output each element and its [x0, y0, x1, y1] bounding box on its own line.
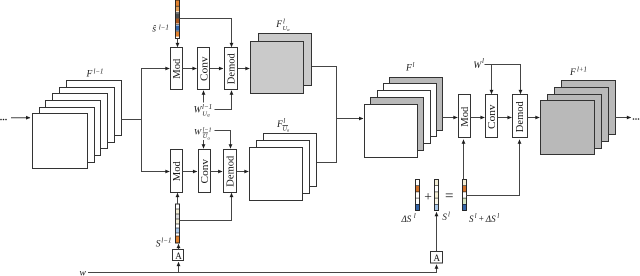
- svg-text:F: F: [405, 63, 412, 73]
- wire: split vertical: [141, 68, 143, 172]
- wire Mod to Conv (top): [183, 68, 197, 70]
- svg-text:a: a: [208, 135, 211, 140]
- svg-text:l−1: l−1: [94, 69, 104, 76]
- node: right ellipsis: [633, 118, 640, 120]
- wire F^{l+1} out: [615, 117, 631, 119]
- svg-text:F: F: [569, 68, 576, 78]
- wire merge into F^l: [337, 118, 364, 120]
- box Mod (right): [459, 95, 472, 138]
- vector s^{l-1} (bottom latent column): [176, 204, 180, 243]
- box Mod (bottom): [171, 150, 184, 193]
- label F^l: [405, 62, 415, 74]
- box Demod (bottom): [224, 150, 237, 193]
- label W^{l-1}_{U_a}: [194, 103, 213, 119]
- label F^{l-1}: [86, 69, 104, 80]
- box Mod (top): [171, 48, 184, 90]
- svg-text:=: =: [445, 189, 453, 205]
- label W^l: [473, 57, 484, 71]
- wire W elbow into top Demod bottom: [215, 91, 232, 110]
- svg-text:Conv: Conv: [200, 159, 211, 184]
- wire from F^{l-1} to split point: [121, 119, 142, 121]
- vector S^l: [435, 180, 439, 211]
- svg-text:l: l: [497, 212, 499, 220]
- wire Demod to F^{l+1}: [528, 117, 540, 119]
- svg-text:ŝ: ŝ: [152, 24, 156, 35]
- svg-text:Mod: Mod: [172, 59, 183, 79]
- svg-text:a: a: [287, 27, 290, 32]
- svg-text:Mod: Mod: [172, 161, 183, 181]
- svg-text:l: l: [448, 212, 450, 219]
- label F^l_{U_a}: [275, 19, 290, 32]
- box Conv (top): [198, 48, 211, 90]
- svg-text:l−1: l−1: [159, 23, 169, 31]
- node: left ellipsis: [0, 119, 7, 121]
- box A (left): [173, 250, 184, 261]
- feature stack F^l_{U_a} (gray, top): [251, 34, 312, 94]
- wire to bottom Mod: [141, 171, 169, 173]
- label S^l + ΔS^l: [469, 212, 499, 224]
- label ΔS^l: [401, 212, 416, 224]
- box Conv (right): [486, 95, 499, 138]
- feature stack F^{l-1}: [33, 81, 122, 169]
- feature stack F^l (middle): [365, 78, 443, 158]
- svg-text:l: l: [482, 57, 484, 65]
- svg-text:Mod: Mod: [460, 107, 471, 127]
- wire Demod to white stack: [237, 171, 249, 173]
- wire white stack out: [317, 118, 337, 163]
- svg-text:l: l: [475, 212, 477, 220]
- label W^{l-1}_{Ū_a}: [194, 126, 212, 140]
- wire W^l down into right Conv: [491, 65, 493, 94]
- wire S^l+ΔS^l up into right Mod: [463, 140, 465, 180]
- wire A to s vector: [178, 244, 180, 250]
- svg-text:Demod: Demod: [515, 101, 526, 132]
- svg-text:ΔS: ΔS: [401, 214, 412, 224]
- label F^{l+1}: [569, 67, 587, 79]
- svg-text:w: w: [80, 269, 87, 276]
- svg-text:l−1: l−1: [161, 236, 171, 244]
- wire w line arrow into left A: [178, 262, 180, 272]
- svg-text:A: A: [433, 253, 440, 263]
- svg-text:Conv: Conv: [199, 56, 210, 81]
- wire W elbow into bottom Demod top: [215, 131, 231, 149]
- svg-text:a: a: [287, 128, 290, 133]
- wire: input arrow to F^{l-1}: [11, 117, 30, 119]
- svg-text:l: l: [413, 62, 415, 69]
- wire s branch to bottom Demod: [180, 193, 232, 220]
- wire s up into bottom Mod: [177, 193, 179, 204]
- label F^l_{Ū_a}: [276, 118, 290, 133]
- wire S^l+ΔS^l elbow into right Demod bottom: [466, 140, 520, 196]
- wire ŝ branch to top Demod: [180, 19, 232, 47]
- wire right A up to S^l: [436, 212, 438, 251]
- label ŝ^{l-1}: [152, 23, 169, 34]
- svg-text:F: F: [86, 70, 93, 80]
- wire Mod to Conv (bottom): [183, 171, 197, 173]
- box Demod (right): [513, 95, 528, 138]
- feature stack F^{l+1} (gray): [541, 81, 616, 155]
- svg-text:Conv: Conv: [487, 104, 498, 129]
- wire to top Mod: [141, 68, 169, 70]
- svg-text:S: S: [156, 239, 161, 249]
- wire W^l elbow to right Demod top: [485, 65, 521, 94]
- svg-text:S: S: [442, 212, 447, 222]
- svg-text:S: S: [469, 214, 474, 224]
- label S^l: [442, 212, 450, 223]
- svg-text:l+1: l+1: [577, 67, 587, 74]
- vector ΔS^l: [416, 180, 420, 211]
- feature stack F^l_{Ū_a} (white, bottom): [250, 134, 317, 201]
- svg-text:Demod: Demod: [226, 156, 237, 187]
- box Demod (top): [225, 48, 238, 90]
- svg-text:W: W: [194, 127, 202, 137]
- wire ŝ down into top Mod: [177, 39, 179, 47]
- svg-text:+: +: [479, 213, 484, 223]
- box A (right): [431, 252, 443, 264]
- svg-text:a: a: [207, 114, 210, 119]
- svg-text:+: +: [424, 189, 432, 204]
- vector ŝ^{l-1} (top latent column): [176, 0, 180, 39]
- wire Conv to Demod (right): [498, 117, 512, 119]
- svg-text:A: A: [175, 251, 182, 261]
- wire Demod to gray stack: [238, 68, 250, 70]
- svg-text:Demod: Demod: [226, 53, 237, 84]
- svg-text:l: l: [283, 118, 285, 125]
- box Conv (bottom): [199, 150, 211, 193]
- wire gray stack out: [312, 67, 337, 119]
- wire W down into bottom Conv: [203, 140, 205, 148]
- wire F^l to right Mod: [443, 117, 458, 119]
- wire Conv to Demod (top): [210, 68, 223, 70]
- svg-text:F: F: [275, 20, 282, 30]
- wire w line: [88, 265, 437, 273]
- wire W up into top Conv: [203, 91, 205, 103]
- vector S^l + ΔS^l: [463, 180, 467, 211]
- svg-text:ΔS: ΔS: [485, 214, 496, 224]
- label S^{l-1}: [156, 236, 172, 249]
- wire Mod to Conv (right): [471, 117, 485, 119]
- wire Conv to Demod (bottom): [211, 171, 223, 173]
- svg-text:l: l: [414, 212, 416, 220]
